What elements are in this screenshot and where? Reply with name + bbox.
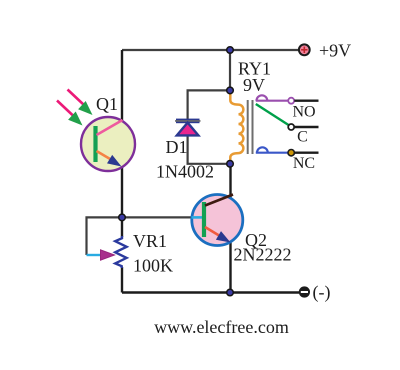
node junction VR1 top [119,214,126,221]
relay RY1 coil [230,93,243,164]
wire VR1 wiper loop [87,217,123,255]
node junction bottom rail [227,289,234,296]
wire diode branch top [188,90,230,120]
relay NC contact line [256,147,319,156]
svg-text:(-): (-) [313,282,331,303]
transistor Q2 body [192,195,243,246]
relay C contact [288,124,318,130]
wire VR1 wiper cyan segment [87,254,103,256]
svg-text:www.elecfree.com: www.elecfree.com [154,317,289,337]
wire Q2 base horizontal [122,216,193,218]
wire bottom rail (-) [122,291,299,293]
Q2 base bar [202,202,206,237]
wire left vertical lower (Q1 emitter down) [121,166,123,237]
Q2 collector line [205,195,233,206]
svg-text:+9V: +9V [319,41,351,61]
svg-text:NC: NC [293,155,315,172]
svg-text:Q1: Q1 [96,94,118,114]
node junction diode top [227,87,234,94]
node junction coil bottom [227,161,234,168]
potentiometer VR1 zigzag [115,236,126,268]
relay armature (to C) [256,104,289,126]
svg-text:100K: 100K [133,256,173,276]
svg-text:1N4002: 1N4002 [156,162,214,182]
node junction top rail [227,47,234,54]
svg-text:NO: NO [292,104,315,121]
light arrow 1 [68,90,93,116]
Q1 collector line [97,120,123,135]
relay core line 1 [247,100,249,154]
svg-text:C: C [297,129,308,146]
diode D1 [175,119,201,136]
svg-text:D1: D1 [166,137,188,157]
light arrow 2 [57,101,83,126]
phototransistor Q1 body [81,117,135,171]
Q2 emitter line [205,227,224,239]
Q1 emitter arrow [107,155,122,167]
Q1 base bar [93,126,97,162]
wire Q2 emitter vertical [229,242,231,293]
wire left vertical upper (Q1 collector to rail) [121,50,123,122]
svg-text:2N2222: 2N2222 [234,245,292,265]
wire top rail +9V [122,49,299,51]
relay NO contact line [256,95,319,103]
VR1 wiper arrow [101,250,115,260]
wire relay coil to Q2 collector [229,164,231,198]
terminal +9V [299,44,310,55]
svg-text:9V: 9V [243,75,265,95]
wire Q2 base cyan segment [192,216,204,219]
relay core line 2 [252,100,254,154]
Q2 emitter arrow [216,231,231,242]
wire relay feed vertical [229,50,231,93]
Q1 emitter line [97,151,117,163]
wire diode branch bottom [188,134,230,164]
wire VR1 bottom [121,267,123,293]
svg-text:VR1: VR1 [133,231,167,251]
terminal (-) [299,286,310,297]
